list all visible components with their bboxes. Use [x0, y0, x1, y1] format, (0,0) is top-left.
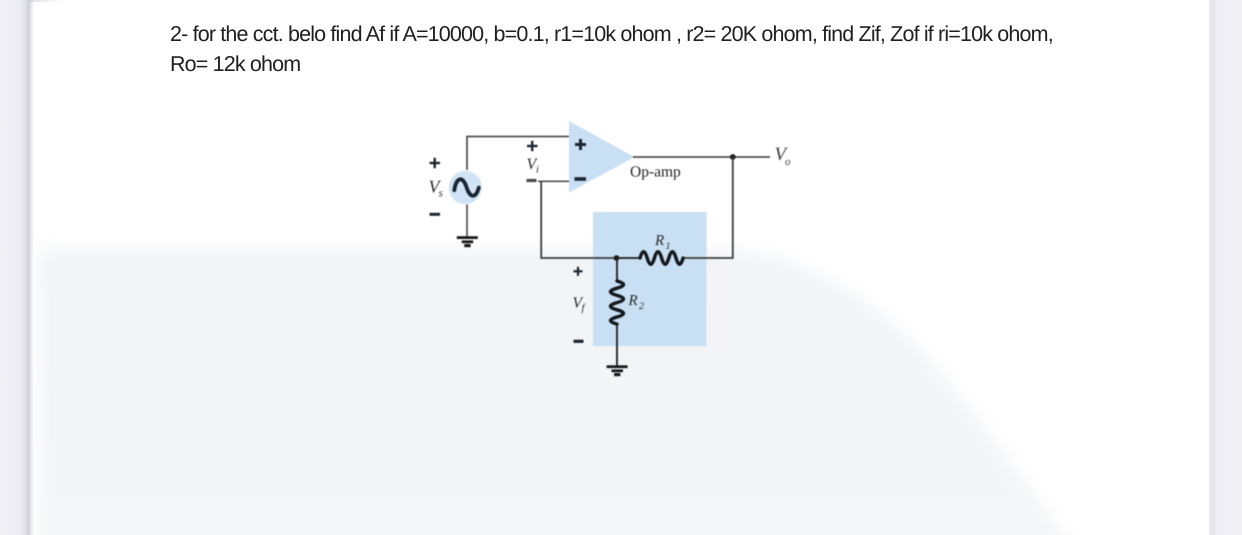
svg-text:R: R — [628, 293, 638, 309]
label + above Vi — [527, 141, 538, 151]
label R1 — [654, 233, 671, 252]
label - inside op-amp — [575, 177, 587, 181]
feedback network shaded box — [593, 212, 707, 346]
label Vs — [429, 177, 443, 200]
svg-text:i: i — [536, 165, 539, 176]
label Vo — [775, 144, 792, 168]
label R2 — [628, 293, 645, 312]
wire R1 left — [617, 257, 641, 259]
svg-text:R: R — [654, 233, 664, 249]
node feedback junction — [614, 255, 620, 261]
ground (source side) — [457, 236, 478, 247]
wire op-amp - input — [538, 180, 569, 182]
wire feedback left vertical — [541, 181, 616, 258]
node at Vo — [730, 154, 736, 160]
svg-text:1: 1 — [666, 241, 671, 252]
label + above Vf — [574, 267, 583, 276]
label - below Vf — [574, 340, 584, 343]
label + polarity of Vs — [430, 158, 441, 168]
voltage source Vs — [449, 171, 482, 204]
svg-text:f: f — [582, 303, 587, 314]
wire node to R2 — [616, 258, 618, 281]
ground (feedback side) — [607, 365, 628, 376]
svg-text:s: s — [439, 188, 443, 200]
resistor R2 — [611, 281, 624, 324]
label Vf — [573, 295, 587, 315]
op-amp U1 body — [569, 121, 635, 193]
label Vi — [527, 156, 540, 176]
wire from Vo node down to R1 — [683, 157, 733, 258]
wire op-amp output to Vo — [633, 156, 770, 158]
label Op-amp — [630, 164, 681, 181]
label - below Vi — [527, 179, 537, 182]
wire R2 to ground — [616, 324, 618, 366]
svg-text:Op-amp: Op-amp — [630, 164, 681, 181]
resistor R1 — [640, 252, 683, 265]
wire from Vs top to op-amp + input — [467, 137, 569, 171]
label + inside op-amp — [575, 139, 586, 150]
wire from Vs bottom to ground — [466, 205, 468, 238]
svg-text:o: o — [785, 156, 791, 168]
svg-text:2: 2 — [639, 301, 644, 312]
label - polarity of Vs — [430, 213, 441, 216]
